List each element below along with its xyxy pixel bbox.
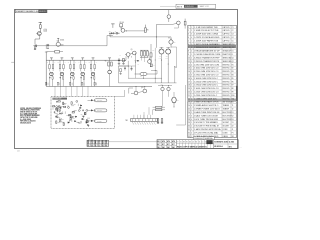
svg-text:2N404: 2N404 <box>60 40 64 42</box>
tube V8 pins <box>166 47 170 49</box>
revision block <box>160 5 176 7</box>
svg-text:SHEET 1 OF 1: SHEET 1 OF 1 <box>200 6 209 8</box>
module value labels <box>55 103 83 125</box>
svg-text:L1: L1 <box>232 54 234 56</box>
power stub stage 6 <box>108 57 111 59</box>
svg-text:R6: R6 <box>147 29 149 31</box>
svg-text:RES FXD: RES FXD <box>223 95 231 97</box>
svg-text:X1: X1 <box>232 122 234 124</box>
resistor R35 cathode <box>94 77 95 80</box>
svg-text:D1: D1 <box>202 142 204 144</box>
transistor Q3 <box>121 29 125 33</box>
svg-text:21: 21 <box>188 95 190 97</box>
svg-text:R10: R10 <box>232 95 235 97</box>
svg-text:Q5: Q5 <box>131 49 133 51</box>
svg-text:REF ZONE: REF ZONE <box>88 139 94 141</box>
svg-text:1 .5 MF 200V PAPER TUB: 1 .5 MF 200V PAPER TUB <box>194 26 218 29</box>
capacitor C9 <box>124 67 126 69</box>
parts list row text <box>188 26 235 138</box>
resistor R12 <box>150 44 152 53</box>
junction dots left rail <box>150 59 153 62</box>
wires strip risers <box>133 115 135 119</box>
svg-text:1 XFMR POWER 117V 60CY: 1 XFMR POWER 117V 60CY <box>194 109 221 111</box>
resistor R13 <box>70 65 72 69</box>
transistor Q7 <box>167 15 171 19</box>
wire stage 2 feeds <box>59 60 61 64</box>
svg-text:1 1N270 DIODE GERMANIU: 1 1N270 DIODE GERMANIU <box>194 43 220 46</box>
svg-text:CONN: CONN <box>223 132 229 134</box>
module wiring specks <box>53 103 90 123</box>
svg-text:V1: V1 <box>232 112 234 114</box>
svg-text:11: 11 <box>188 61 190 63</box>
svg-text:14: 14 <box>188 71 190 73</box>
svg-text:19: 19 <box>188 88 190 90</box>
svg-text:23: 23 <box>188 102 190 104</box>
svg-text:1 XFMR AUDIO 500CT/8 O: 1 XFMR AUDIO 500CT/8 O <box>194 104 219 107</box>
small box K1 coil <box>150 64 152 67</box>
resistor R25 <box>94 65 96 69</box>
svg-text:47K: 47K <box>44 30 46 32</box>
wire stage 3 feeds <box>69 60 71 64</box>
wire stage 5 feeds <box>90 60 92 64</box>
svg-text:SH 1: SH 1 <box>229 146 233 148</box>
wire q8 base drop <box>177 25 179 28</box>
bottom reference table <box>87 140 109 146</box>
wire module top link <box>114 96 125 98</box>
svg-text:12-3045-501: 12-3045-501 <box>185 6 194 8</box>
resistor R5 <box>120 24 123 27</box>
wire x1288 <box>128 66 130 78</box>
wire feed to V-section <box>155 25 157 48</box>
resistor R12 <box>59 65 61 69</box>
ground sym 5 <box>120 73 122 75</box>
svg-text:1 SWITCH ROTARY 4 POS: 1 SWITCH ROTARY 4 POS <box>194 101 219 104</box>
resistor R15 <box>156 109 162 111</box>
node wire main input line <box>37 45 107 47</box>
resistor bank R9 <box>141 51 143 56</box>
power stub stage 5 <box>92 57 95 59</box>
svg-text:R9: R9 <box>232 92 234 94</box>
resistor R16 <box>108 62 110 66</box>
arrow to J1 <box>91 99 94 101</box>
resistor R13 <box>184 21 186 25</box>
svg-text:1 10MF 25V ELECTLT TUB: 1 10MF 25V ELECTLT TUB <box>194 30 219 32</box>
title block upper tab <box>193 137 214 140</box>
svg-text:TB1: TB1 <box>125 120 128 122</box>
svg-text:16: 16 <box>188 78 190 80</box>
resistor R31 cathode <box>52 77 53 80</box>
svg-text:F2: F2 <box>177 142 179 144</box>
junction dot d1 <box>127 65 130 68</box>
svg-text:R7: R7 <box>232 85 234 87</box>
resistor R14 <box>156 106 162 108</box>
transistor Q6 <box>148 60 152 64</box>
connector J1 <box>94 99 107 102</box>
tube V3 envelope <box>71 72 75 76</box>
tube V10 envelope <box>172 97 176 103</box>
transistor Q11 <box>161 87 164 90</box>
transistor Q1 <box>37 32 41 36</box>
wire x1765 upper <box>176 47 178 67</box>
svg-text:RES FXD: RES FXD <box>223 88 231 90</box>
resistor R26 <box>111 62 113 66</box>
svg-text:BY 7: BY 7 <box>157 144 160 146</box>
svg-text:2 2N1305 TRANSISTOR PN: 2 2N1305 TRANSISTOR PN <box>194 60 220 63</box>
top-left strip dark cell <box>39 10 47 13</box>
svg-text:Q2: Q2 <box>232 61 234 63</box>
svg-text:1 470 OHM 1/2W 10% COM: 1 470 OHM 1/2W 10% COM <box>194 64 220 66</box>
resistor R17 vert <box>157 119 159 123</box>
power stub stage 1 <box>50 57 53 59</box>
tube V7 <box>159 49 164 54</box>
wire left rail <box>45 52 47 86</box>
wire resistor row to strip <box>152 110 154 115</box>
capacitor C8 hang <box>131 56 133 58</box>
svg-text:CR2: CR2 <box>232 47 235 49</box>
svg-text:R1: R1 <box>232 64 234 66</box>
svg-text:W1: W1 <box>232 136 234 138</box>
wire Q1 emitter down <box>39 36 41 40</box>
transistor Q9 <box>134 91 138 95</box>
svg-text:BY 7: BY 7 <box>162 144 165 146</box>
capacitor C2 shunt <box>47 44 49 45</box>
svg-text:2 100K OHM 1/2W 10% CO: 2 100K OHM 1/2W 10% CO <box>194 88 219 90</box>
resistor bank R11 <box>147 51 149 56</box>
terminal strip hatch <box>132 122 134 125</box>
diode CR1 <box>109 32 111 34</box>
svg-text:33: 33 <box>188 136 190 138</box>
svg-text:17: 17 <box>188 81 190 83</box>
svg-text:1 6C4 TUBE TRIODE MINI: 1 6C4 TUBE TRIODE MINI <box>194 119 218 121</box>
resistor R33 cathode <box>73 77 74 80</box>
wire right drop <box>185 85 187 125</box>
power stub stage 3 <box>71 57 74 59</box>
svg-text:28: 28 <box>188 119 190 121</box>
parts list right margin ticks <box>236 26 237 28</box>
power stub stage 4 <box>81 57 84 59</box>
svg-text:1 47000 OHM 1/2W 10% C: 1 47000 OHM 1/2W 10% C <box>194 85 219 87</box>
svg-text:Q10: Q10 <box>141 87 144 89</box>
wire vertical riser to detector <box>106 36 108 46</box>
svg-text:P1: P1 <box>232 132 234 134</box>
junction dots lower <box>135 85 138 88</box>
resistor R23 <box>73 65 75 69</box>
svg-text:R4: R4 <box>232 74 234 76</box>
transistor Q12 <box>167 87 170 90</box>
ground sym 2 <box>122 62 124 64</box>
svg-text:SOCKET: SOCKET <box>223 122 230 124</box>
svg-text:J1: J1 <box>232 129 234 131</box>
tube V7 pins <box>160 47 164 49</box>
wire detector output <box>126 30 145 32</box>
wire tube columns <box>161 54 163 83</box>
svg-text:G1: G1 <box>199 142 201 144</box>
svg-text:2 .05MF 200V PAPER TUB: 2 .05MF 200V PAPER TUB <box>194 39 219 42</box>
resistor R32 cathode <box>63 77 64 80</box>
svg-text:6.8K: 6.8K <box>69 120 72 122</box>
svg-text:RES FXD: RES FXD <box>223 98 231 100</box>
svg-text:PLUG-IN UNIT: PLUG-IN UNIT <box>53 98 62 100</box>
svg-text:C5: C5 <box>232 40 234 42</box>
tube V5 envelope <box>91 72 95 76</box>
svg-text:K = 1000 OHMS: K = 1000 OHMS <box>20 119 31 121</box>
svg-text:4 2N404 TRANSISTOR PNP: 4 2N404 TRANSISTOR PNP <box>194 56 220 59</box>
svg-text:1 470PF 5% MICA MOLDED: 1 470PF 5% MICA MOLDED <box>194 36 220 39</box>
wire B+ bus <box>46 59 126 61</box>
wire r13 down <box>184 25 186 29</box>
svg-text:R3: R3 <box>232 71 234 73</box>
module title strip <box>52 98 67 100</box>
transistor Q4 <box>126 53 130 57</box>
terminal strip TB1 <box>131 119 158 122</box>
svg-text:1 JACK PHONO MOTOROLA: 1 JACK PHONO MOTOROLA <box>194 128 221 131</box>
wire lower return <box>110 36 156 38</box>
tube V4 envelope <box>81 72 85 76</box>
arrow to J2 <box>91 109 94 111</box>
svg-text:C3: C3 <box>232 34 234 36</box>
wire rbank2 <box>153 106 156 108</box>
resistor R24 <box>84 65 86 69</box>
svg-text:R6: R6 <box>232 81 234 83</box>
capacitor C4 <box>118 58 120 60</box>
svg-text:1 PLUG 8 PIN OCTAL MAL: 1 PLUG 8 PIN OCTAL MAL <box>194 131 219 134</box>
wire Q2 output <box>60 44 63 46</box>
svg-text:B8: B8 <box>183 142 185 144</box>
bottom link wire <box>109 141 157 143</box>
parts list shaded row 2 <box>188 99 237 102</box>
svg-text:B5: B5 <box>186 142 188 144</box>
svg-text:B6: B6 <box>195 142 197 144</box>
transformer T1 winding <box>140 72 147 75</box>
svg-text:1 470K OHM 1/2W 10% C: 1 470K OHM 1/2W 10% C <box>194 95 218 97</box>
power stub stage 2 <box>61 57 64 59</box>
right margin bracket bar <box>236 86 237 101</box>
svg-text:1 220K OHM 1/2W 10% CO: 1 220K OHM 1/2W 10% CO <box>194 92 219 94</box>
svg-text:Q2: Q2 <box>57 40 59 42</box>
ground sym 3 <box>157 122 159 124</box>
svg-text:TO REC: TO REC <box>97 121 102 123</box>
svg-text:REV B: REV B <box>177 6 183 8</box>
svg-text:Q1: Q1 <box>232 57 234 59</box>
svg-text:15: 15 <box>188 74 190 76</box>
notes text block <box>20 108 41 125</box>
svg-text:RES FXD: RES FXD <box>223 74 231 76</box>
resistor R14 <box>80 65 82 69</box>
svg-text:V2: V2 <box>232 115 234 117</box>
capacitor C11 bypass <box>49 75 51 78</box>
svg-text:R11: R11 <box>232 98 235 100</box>
svg-text:12: 12 <box>188 64 190 66</box>
svg-text:2 1000 OHM 1/2W 10% CO: 2 1000 OHM 1/2W 10% CO <box>194 68 219 70</box>
grid resistors between stages <box>45 82 46 85</box>
svg-text:RES FXD: RES FXD <box>223 85 231 87</box>
svg-text:20: 20 <box>188 92 190 94</box>
svg-text:1 1 MEG OHM 1/2W 10%: 1 1 MEG OHM 1/2W 10% <box>194 98 217 100</box>
svg-text:29: 29 <box>188 122 190 124</box>
title block text <box>157 140 234 149</box>
left border fold tick <box>11 61 14 63</box>
parts list highlighted row <box>188 45 237 48</box>
capacitor C15 bypass <box>90 75 92 78</box>
parts list table grid <box>188 25 237 137</box>
wire pair top <box>158 85 172 87</box>
wire stage 4 feeds <box>80 60 82 64</box>
wire stage 1 feeds <box>49 60 51 64</box>
wire stage 3 down <box>70 79 72 86</box>
svg-text:CR3: CR3 <box>55 112 58 114</box>
svg-text:CR1: CR1 <box>232 44 235 46</box>
wire mid horizontals <box>128 77 162 79</box>
title block strip <box>157 140 238 149</box>
capacitor C3 <box>115 32 117 34</box>
resistor R15 <box>90 65 92 69</box>
svg-text:25: 25 <box>188 109 190 111</box>
svg-text:S1: S1 <box>232 102 234 104</box>
svg-text:10K: 10K <box>74 104 76 106</box>
svg-text:RES FXD: RES FXD <box>223 68 231 70</box>
wire return ext <box>156 36 171 38</box>
tube V9 <box>169 40 173 44</box>
svg-text:V3: V3 <box>232 119 234 121</box>
stage label row specks <box>49 71 93 73</box>
svg-text:C1: C1 <box>232 27 234 29</box>
arrow to J3 <box>91 120 94 122</box>
svg-text:12-3045-501: 12-3045-501 <box>194 138 203 140</box>
svg-text:G0: G0 <box>180 142 182 144</box>
wire q9q10 <box>138 91 143 92</box>
svg-text:1 RELAY ARMATURE 6V DP: 1 RELAY ARMATURE 6V DP <box>194 50 221 53</box>
svg-text:6.8K: 6.8K <box>61 113 64 115</box>
svg-text:T1: T1 <box>232 105 234 107</box>
junction node A <box>174 66 175 67</box>
junction dots tube block <box>154 59 157 62</box>
wire y66 ext <box>119 65 136 67</box>
wire V9 link <box>170 47 172 48</box>
resistor R11 <box>49 65 51 69</box>
connector J3 <box>94 119 107 122</box>
svg-text:RES FXD: RES FXD <box>223 92 231 94</box>
transistor Q5 <box>132 51 136 55</box>
transistor Q2 <box>56 42 60 46</box>
wire stage 5 down <box>90 79 92 86</box>
svg-text:NOTES. UNLESS OTHERWISE: NOTES. UNLESS OTHERWISE <box>20 108 41 110</box>
resistor R6 <box>144 28 146 32</box>
tube V6 envelope <box>108 70 112 74</box>
svg-text:X2: X2 <box>232 126 234 128</box>
svg-text:5 6AU6 TUBE PENTODE MI: 5 6AU6 TUBE PENTODE MI <box>194 111 220 114</box>
svg-text:B3: B3 <box>208 142 210 144</box>
svg-text:22: 22 <box>188 98 190 100</box>
svg-text:2 SOCKET 9 PIN NOVAL M: 2 SOCKET 9 PIN NOVAL M <box>194 125 219 128</box>
svg-text:24: 24 <box>188 105 190 107</box>
wire stage 1 down <box>49 79 51 86</box>
svg-text:V6: V6 <box>105 60 107 62</box>
svg-text:C4: C4 <box>232 37 234 39</box>
svg-text:MI-38129: MI-38129 <box>39 11 46 13</box>
wire q9 up <box>135 86 137 91</box>
resistor R3 shunt <box>34 39 36 45</box>
resistor bank R10 <box>144 51 146 56</box>
wire v-drops resistor bank <box>141 58 143 61</box>
ground sym 1 <box>118 62 120 64</box>
wire bottom return bus <box>46 85 152 87</box>
svg-text:2 1N34A DIODE GERMANIU: 2 1N34A DIODE GERMANIU <box>194 46 220 49</box>
svg-text:BY 7: BY 7 <box>172 144 175 146</box>
svg-text:5 SOCKET 7 PIN MINIATU: 5 SOCKET 7 PIN MINIATU <box>194 121 219 124</box>
junction dots cluster <box>109 32 112 35</box>
svg-text:RES FXD: RES FXD <box>223 71 231 73</box>
wire centre column <box>135 53 137 74</box>
svg-text:SOCKET: SOCKET <box>223 126 230 128</box>
svg-text:BY 7: BY 7 <box>167 144 170 146</box>
junction dot d2 <box>142 77 145 80</box>
svg-text:V9: V9 <box>168 38 170 40</box>
svg-text:RES FXD: RES FXD <box>223 81 231 83</box>
resistor R19 <box>120 69 122 72</box>
svg-text:27: 27 <box>188 115 190 117</box>
resistor R7 dropping <box>45 44 47 49</box>
top-left drawing number strip <box>15 10 47 13</box>
tube V1 envelope <box>50 72 54 76</box>
wire upper right link <box>162 24 172 26</box>
svg-text:G0: G0 <box>205 142 207 144</box>
wire x1355 down <box>135 74 137 78</box>
resistor R21 <box>52 65 54 69</box>
svg-text:R2: R2 <box>232 68 234 70</box>
resistor R8 <box>123 58 125 61</box>
power rail tap +12V <box>39 21 42 23</box>
svg-text:T2: T2 <box>232 109 234 111</box>
wires into module box <box>54 86 56 96</box>
svg-text:18: 18 <box>188 85 190 87</box>
transistor Q10 <box>143 89 147 93</box>
svg-text:WITH VTVM TO GROUND: WITH VTVM TO GROUND <box>20 117 37 119</box>
wire transformer secondary <box>151 69 157 71</box>
wire stage 4 down <box>80 79 82 86</box>
resistor R22 <box>63 65 65 69</box>
svg-text:2 6AL5 TUBE DUO DIODE: 2 6AL5 TUBE DUO DIODE <box>194 114 219 117</box>
power tap B+ <box>111 23 114 25</box>
svg-text:C2: C2 <box>232 30 234 32</box>
svg-text:6.8K: 6.8K <box>66 115 69 117</box>
capacitor C1 <box>33 45 35 47</box>
svg-text:1 10000 OHM 1/2W 10% C: 1 10000 OHM 1/2W 10% C <box>194 78 219 80</box>
svg-text:4-65: 4-65 <box>17 150 20 152</box>
svg-text:10: 10 <box>188 57 190 59</box>
resistor R18 vert <box>161 119 163 123</box>
svg-text:31: 31 <box>98 145 100 147</box>
svg-text:R5 10K: R5 10K <box>120 22 124 24</box>
svg-text:31: 31 <box>188 129 190 131</box>
wire q10 up <box>144 86 146 89</box>
drawing border frame <box>15 10 238 149</box>
wire stage 2 down <box>59 79 61 86</box>
tube V8 <box>166 49 171 54</box>
wire resistor bank top <box>140 49 148 51</box>
module components cluster <box>53 101 90 127</box>
ground sym 4 <box>161 122 163 124</box>
module enclosure dashed box <box>51 97 115 129</box>
svg-text:R8: R8 <box>232 88 234 90</box>
svg-text:4 2200 OHM 1/2W 10% CO: 4 2200 OHM 1/2W 10% CO <box>194 71 219 73</box>
capacitor C12 bypass <box>59 75 61 78</box>
svg-text:2 22000 OHM 1/2W 10% C: 2 22000 OHM 1/2W 10% C <box>194 81 219 83</box>
svg-text:RES FXD: RES FXD <box>223 78 231 80</box>
svg-text:RES FXD: RES FXD <box>223 64 231 66</box>
svg-text:R5: R5 <box>232 78 234 80</box>
resistor R34 cathode <box>83 77 84 80</box>
resistor R1 <box>39 25 41 29</box>
